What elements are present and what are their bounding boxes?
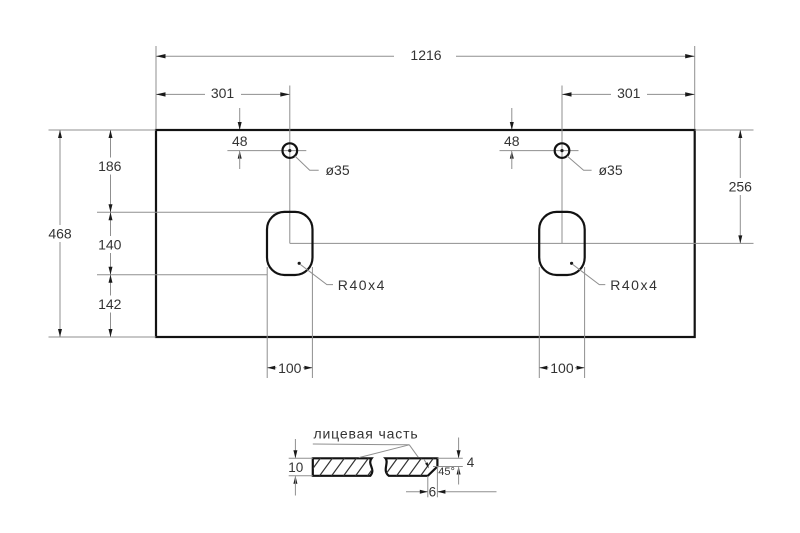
label R40x4 right leader (572, 264, 605, 284)
faucet hole left circle (283, 143, 298, 158)
extension line oval top horizontal (97, 211, 290, 213)
svg-text:1216: 1216 (410, 47, 441, 63)
leader to left bar (359, 445, 410, 458)
svg-text:140: 140 (98, 237, 122, 253)
svg-text:ø35: ø35 (599, 162, 623, 178)
label 45 degrees leader arrow (424, 460, 427, 465)
oval cutout right center dot of leader (570, 262, 573, 265)
label ø35 left leader (295, 156, 319, 170)
dimension 6 (406, 467, 497, 499)
extension line top-left vertical (155, 46, 157, 129)
section right bar outline (386, 458, 438, 476)
svg-text:4: 4 (467, 455, 475, 470)
oval cutout left center dot of leader (298, 262, 301, 265)
leader underline (313, 443, 410, 446)
faucet hole right center dot (560, 149, 563, 152)
oval cutout left (267, 212, 313, 275)
dimension 100 left (267, 360, 312, 376)
faucet hole left center dot (288, 149, 291, 152)
svg-text:6: 6 (429, 484, 437, 499)
slab outline (156, 130, 695, 337)
extension line left top horizontal (49, 129, 157, 131)
svg-text:100: 100 (278, 360, 302, 376)
dimension 1216 (156, 47, 695, 64)
dimension chain 186/140/142 (95, 130, 124, 337)
section right bar hatching (383, 456, 459, 478)
label ø35 right leader (567, 156, 592, 170)
dimension 4 (433, 438, 475, 485)
svg-text:R40x4: R40x4 (338, 277, 386, 293)
dimension 301 left (156, 85, 290, 102)
svg-text:лицевая часть: лицевая часть (313, 426, 418, 442)
svg-text:256: 256 (729, 179, 753, 195)
leader to right bar (409, 445, 418, 458)
svg-text:186: 186 (98, 158, 122, 174)
extension line left oval left tangent (266, 267, 268, 378)
extension line left oval right tangent (311, 267, 313, 378)
svg-text:142: 142 (98, 296, 122, 312)
dimension 256 (726, 130, 755, 243)
dimension 10 (288, 439, 313, 496)
svg-text:468: 468 (48, 226, 72, 242)
svg-text:100: 100 (550, 360, 574, 376)
svg-text:301: 301 (211, 85, 235, 101)
dimension 100 right (539, 360, 584, 376)
extension line left bottom horizontal (49, 336, 157, 338)
svg-text:48: 48 (232, 133, 248, 149)
extension line right oval left tangent (538, 267, 540, 378)
svg-text:48: 48 (504, 133, 520, 149)
dimension 301 right (562, 85, 695, 102)
svg-text:301: 301 (617, 85, 641, 101)
svg-text:R40x4: R40x4 (610, 277, 658, 293)
dimension 48 right (500, 108, 579, 169)
extension line right oval right tangent (584, 267, 586, 378)
faucet hole right circle (555, 143, 570, 158)
svg-text:ø35: ø35 (326, 162, 350, 178)
section left bar hatching (294, 456, 382, 478)
extension line right top horizontal (695, 129, 754, 131)
oval cutout right (539, 212, 585, 275)
centerline ovals horizontal (290, 242, 754, 244)
dimension 468 (46, 130, 74, 337)
centerline left hole vertical (289, 86, 291, 244)
section left bar outline (313, 458, 373, 476)
dimension 48 left (227, 108, 306, 169)
label R40x4 left leader (300, 264, 333, 284)
svg-text:10: 10 (288, 460, 303, 475)
extension line oval bottom horizontal (97, 274, 268, 276)
extension line top-right vertical (694, 46, 696, 129)
svg-text:45°: 45° (438, 466, 455, 478)
centerline right hole vertical (561, 86, 563, 244)
